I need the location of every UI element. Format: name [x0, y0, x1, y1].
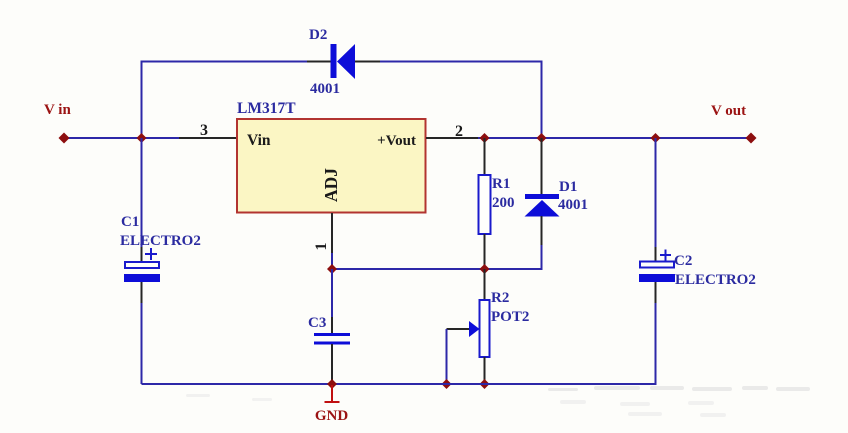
svg-text:2: 2	[455, 123, 463, 140]
pin: C2 negative pin	[655, 282, 657, 303]
svg-text:C3: C3	[308, 315, 326, 331]
junction: wiper on bottom rail	[442, 379, 452, 389]
svg-text:V in: V in	[44, 102, 71, 118]
diode D2 cathode bar	[331, 44, 337, 78]
capacitor C2 top plate	[640, 262, 674, 268]
junction: R1/R2 node on ADJ wire	[480, 264, 490, 274]
ground symbol stem	[331, 385, 333, 402]
capacitor C1 top plate	[125, 262, 159, 268]
svg-text:D2: D2	[309, 27, 327, 43]
svg-text:POT2: POT2	[491, 309, 529, 325]
pin: C1 negative pin	[141, 282, 143, 303]
node: V out terminal diamond	[746, 133, 757, 144]
wire: wiper vertical lead to bottom rail	[446, 329, 448, 384]
svg-text:C1: C1	[121, 214, 139, 230]
diode D1 triangle	[525, 200, 560, 217]
svg-text:D1: D1	[559, 179, 577, 195]
capacitor C2 bottom plate	[639, 274, 675, 282]
pin 1 of U1 (ADJ)	[331, 213, 333, 253]
wire: C1 to bottom rail	[141, 303, 143, 384]
pin: D2 anode pin (right)	[355, 61, 380, 63]
svg-text:ADJ: ADJ	[321, 168, 341, 202]
pin: C3 top pin	[331, 317, 333, 333]
wire: R2 top connection	[484, 269, 486, 300]
diode D1 cathode bar	[525, 194, 559, 199]
svg-text:1: 1	[313, 243, 330, 251]
svg-text:3: 3	[200, 122, 208, 139]
wire: C2 to bottom rail	[655, 303, 657, 385]
pin: C1 positive pin	[141, 247, 143, 262]
pin 3 of U1	[179, 137, 237, 139]
wire: input junction up to top rail toward D2	[142, 62, 308, 139]
wire: wiper horizontal lead	[447, 328, 470, 330]
svg-text:200: 200	[492, 195, 515, 211]
svg-text:R2: R2	[491, 290, 509, 306]
pin: C3 bottom pin	[331, 344, 333, 384]
svg-text:GND: GND	[315, 408, 349, 424]
resistor R1 body	[479, 175, 491, 234]
regulator U1 LM317T body	[237, 119, 426, 213]
junction: output node at D1	[537, 133, 547, 143]
wire: Vin terminal to input junction	[64, 137, 142, 139]
pin: D1 top pin	[541, 138, 543, 194]
potentiometer R2 body	[480, 300, 490, 357]
wire: D2 to output junction (top right corner)	[380, 62, 542, 138]
junction: ADJ node	[327, 264, 337, 274]
wire: C3 branch from ADJ junction	[331, 269, 333, 317]
svg-text:V out: V out	[711, 103, 746, 119]
svg-text:4001: 4001	[558, 197, 588, 213]
wire: C2 branch from output junction	[655, 138, 657, 247]
junction: output node at R1	[480, 133, 490, 143]
capacitor C1 plus sign	[145, 248, 157, 260]
pin: C2 positive pin	[655, 247, 657, 261]
junction: ground node on bottom rail	[327, 379, 337, 389]
wire: output rail to V out terminal	[478, 137, 751, 139]
wire: input junction to pin 3	[142, 137, 180, 139]
node: V in terminal diamond	[59, 133, 70, 144]
wire: C1 branch from input junction	[141, 138, 143, 247]
svg-text:R1: R1	[492, 176, 510, 192]
capacitor C1 bottom plate	[124, 274, 160, 282]
wire: bottom rail	[142, 383, 657, 385]
diode D2 triangle	[337, 44, 355, 79]
ground symbol bar	[325, 401, 340, 403]
wire: ADJ pin to ADJ junction	[331, 253, 333, 269]
capacitor C2 plus sign	[660, 250, 671, 261]
junction: output node at C2	[651, 133, 661, 143]
capacitor C3 bottom plate	[314, 342, 350, 345]
svg-text:Vin: Vin	[247, 132, 271, 149]
svg-text:+Vout: +Vout	[377, 133, 416, 149]
wire: ADJ junction to D1 bottom	[332, 245, 542, 269]
pin: R1 top pin	[484, 138, 486, 175]
svg-text:ELECTRO2: ELECTRO2	[120, 233, 201, 249]
junction: R2 bottom on rail	[480, 379, 490, 389]
pin: R1 bottom pin	[484, 234, 486, 269]
svg-text:4001: 4001	[310, 81, 340, 97]
pin: D2 cathode pin (left)	[307, 61, 331, 63]
svg-text:C2: C2	[674, 253, 692, 269]
pin 2 of U1	[426, 137, 478, 139]
svg-text:LM317T: LM317T	[237, 100, 296, 117]
faint watermark smudge (decorative ghost text)	[548, 386, 810, 391]
junction: input node	[137, 133, 147, 143]
potentiometer R2 wiper arrow	[469, 321, 480, 337]
pin: R2 bottom pin	[484, 357, 486, 384]
pin: D1 bottom pin	[541, 216, 543, 245]
svg-text:ELECTRO2: ELECTRO2	[675, 272, 756, 288]
capacitor C3 top plate	[314, 333, 350, 336]
